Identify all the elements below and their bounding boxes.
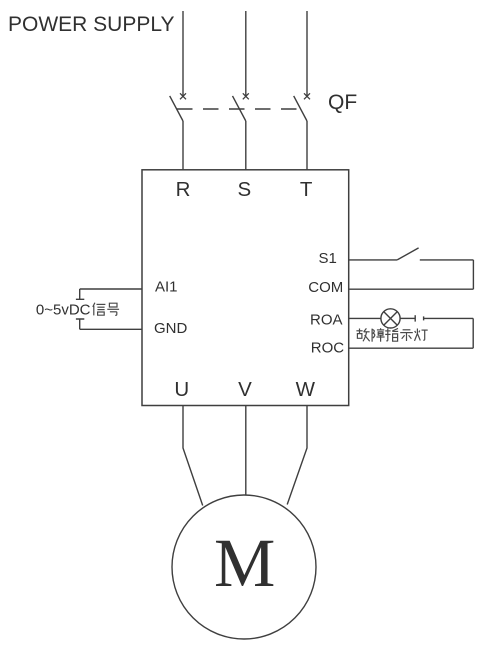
svg-text:0~5vDC: 0~5vDC [36, 301, 91, 318]
wire lamp to connector [400, 317, 415, 319]
svg-text:POWER SUPPLY: POWER SUPPLY [8, 13, 174, 36]
svg-text:AI1: AI1 [155, 279, 178, 296]
svg-text:U: U [174, 378, 189, 401]
lamp HL cross [384, 312, 398, 326]
wire phase L3 incoming [306, 11, 308, 96]
svg-text:V: V [238, 378, 252, 401]
connector bar right [423, 316, 425, 320]
wire phase L1 incoming [182, 11, 184, 96]
svg-text:T: T [300, 178, 313, 201]
svg-text:QF: QF [328, 91, 357, 114]
breaker QF pole 2 blade [233, 96, 246, 121]
svg-text:S1: S1 [319, 250, 337, 267]
wire AI1 left [80, 288, 142, 290]
wire S1 to COM vertical [472, 260, 474, 289]
breaker QF pole 3 blade [294, 96, 307, 121]
breaker QF linkage dashed [177, 108, 302, 110]
svg-text:ROA: ROA [310, 311, 343, 328]
svg-text:W: W [296, 378, 316, 401]
wire S1 out [349, 259, 398, 261]
char zhang 障 [372, 328, 385, 342]
probe tick GND [76, 319, 84, 329]
wire ROC return [349, 347, 474, 349]
char zhi 指 [385, 328, 398, 341]
terminal mark x pole 3 [304, 93, 310, 99]
wire W to motor [287, 406, 307, 505]
char shi 示 [400, 330, 413, 341]
wire phase L2 incoming [245, 11, 247, 96]
wire pole 1 to box [182, 121, 184, 170]
motor M circle [172, 495, 316, 639]
char hao 号 [107, 303, 119, 315]
char deng 灯 [415, 329, 428, 341]
terminal mark x pole 1 [180, 93, 186, 99]
wire connector to corner [424, 317, 474, 319]
breaker QF pole 1 blade [170, 96, 183, 121]
wire ROA to ROC vertical [472, 318, 474, 348]
svg-text:ROC: ROC [311, 339, 345, 356]
inverter box U1 [142, 170, 349, 406]
terminal mark x pole 2 [243, 93, 249, 99]
svg-text:R: R [176, 178, 191, 201]
wire COM return [349, 288, 474, 290]
svg-text:COM: COM [308, 279, 343, 296]
wire pole 2 to box [245, 121, 247, 170]
wire S1 contact [420, 259, 474, 261]
svg-text:GND: GND [154, 320, 188, 337]
probe tick AI1 [76, 289, 84, 299]
wire pole 3 to box [306, 121, 308, 170]
lamp HL circle [381, 309, 400, 328]
wire U to motor [183, 406, 203, 506]
wire ROA out [349, 317, 381, 319]
label fault indicator lamp: char gu 故 [356, 328, 369, 341]
switch S1 blade [397, 248, 418, 260]
wire V to motor [245, 406, 247, 496]
wire GND left [80, 328, 142, 330]
connector bar left [414, 315, 416, 321]
svg-text:M: M [214, 525, 275, 601]
svg-text:S: S [237, 178, 251, 201]
char xin 信 [93, 303, 106, 316]
